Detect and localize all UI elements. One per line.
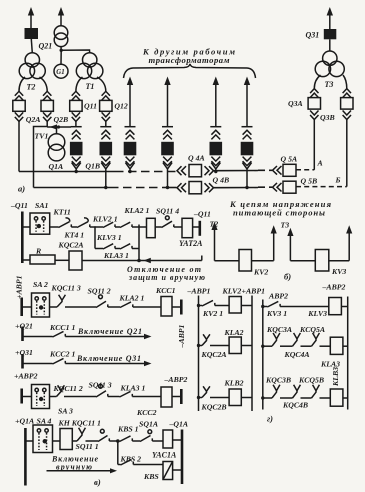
contact KQC5A — [312, 333, 320, 346]
svg-text:KQC3B: KQC3B — [265, 375, 291, 384]
svg-text:KV3: KV3 — [331, 267, 346, 276]
arrow right of KV2 — [252, 225, 277, 260]
svg-text:KLV2: KLV2 — [222, 287, 242, 296]
wire — [22, 396, 32, 398]
contact SQ11.2 — [96, 301, 108, 307]
breaker Q3B — [341, 98, 353, 110]
feeder unit F5: Y fork to bus — [211, 163, 220, 172]
svg-text:KT4 1: KT4 1 — [64, 231, 85, 240]
svg-text:+АВР1: +АВР1 — [15, 275, 24, 299]
drawout chevrons above Q2B — [43, 91, 51, 100]
contact KLV2.1 — [103, 222, 115, 227]
svg-text:б): б) — [284, 272, 291, 282]
svg-text:Q3A: Q3A — [288, 99, 303, 108]
feeder unit Q1B: stab contact bar — [100, 126, 111, 128]
wire — [132, 226, 139, 228]
contact KT1.1 (time relay) — [59, 222, 72, 228]
wire TV1 drop — [56, 127, 58, 134]
svg-text:Q 4B: Q 4B — [213, 176, 230, 185]
wire — [65, 306, 96, 308]
feeder unit Q1A: upper drawout chevrons — [72, 130, 81, 139]
svg-text:Включение Q21: Включение Q21 — [77, 327, 142, 336]
sectionalizer Q4B — [189, 182, 202, 194]
wire — [50, 306, 58, 308]
svg-text:–Q1A: –Q1A — [169, 419, 189, 428]
wire — [133, 306, 161, 308]
node F4 on bus2 — [166, 186, 169, 189]
wire — [132, 248, 139, 250]
Q5A left chevrons — [273, 166, 282, 175]
node — [197, 344, 200, 347]
svg-text:KLA3 1: KLA3 1 — [103, 251, 129, 260]
wire — [90, 226, 95, 228]
svg-text:+Q31: +Q31 — [15, 348, 33, 357]
control switch SA2 — [32, 293, 50, 317]
wire — [263, 397, 272, 399]
relay coil KLA2 — [147, 218, 156, 237]
bus A dashed — [115, 171, 177, 173]
trip coil YAT2A — [182, 218, 193, 237]
svg-text:SQ11 4: SQ11 4 — [156, 207, 179, 216]
wire — [263, 306, 268, 308]
svg-text:питающей стороны: питающей стороны — [233, 208, 325, 218]
wire — [109, 440, 119, 442]
svg-text:KCC1 1: KCC1 1 — [49, 323, 75, 332]
svg-text:KBS 1: KBS 1 — [117, 425, 139, 434]
contactor coil KCC1 — [161, 297, 172, 317]
contact KQC4B — [293, 385, 301, 398]
wire T3 left branch — [314, 75, 320, 89]
svg-text:г): г) — [267, 414, 273, 424]
wire — [108, 396, 120, 398]
contact SQ11.4 (position switch) — [162, 221, 174, 227]
relay KBS (latched) — [163, 462, 173, 480]
wire — [343, 397, 348, 399]
feeder unit F6: Y fork to bus — [242, 163, 251, 188]
bus A solid left — [19, 171, 115, 173]
g2 right rail — [347, 297, 349, 410]
svg-text:Q1B: Q1B — [85, 162, 100, 171]
wire — [115, 248, 120, 250]
contact KBS.2 — [121, 459, 134, 465]
wire — [132, 440, 140, 442]
svg-text:KCQ5A: KCQ5A — [299, 325, 325, 334]
feeder unit F4: lower drawout chevrons — [163, 157, 172, 166]
wire — [25, 440, 33, 442]
wire — [193, 226, 200, 228]
feeder unit Q1A: Y fork to bus — [72, 163, 81, 172]
contact KBS.1 — [120, 436, 133, 442]
svg-text:–Q11: –Q11 — [10, 201, 28, 210]
relay coil KLV3 — [329, 298, 342, 315]
wire — [22, 306, 32, 308]
svg-text:KT11: KT11 — [53, 208, 71, 217]
contact KLA3.1 — [120, 244, 132, 249]
node — [261, 396, 264, 399]
feeder arrow 4 — [244, 77, 250, 127]
wire right bar down to row2 — [138, 249, 140, 261]
svg-text:KCQ5B: KCQ5B — [298, 375, 324, 384]
wire row2 to right — [82, 260, 202, 262]
breaker Q1B (filled) — [100, 142, 113, 156]
annotation arrow manual closing — [47, 470, 111, 472]
svg-text:а): а) — [18, 184, 25, 194]
wire — [320, 397, 331, 399]
bus B dashed — [110, 187, 163, 189]
breaker F4 (filled) — [161, 142, 174, 156]
drawout chevrons below Q11 — [72, 112, 80, 121]
svg-text:в): в) — [94, 477, 101, 487]
resistor R — [30, 255, 55, 264]
feeder unit F5: stab contact bar — [210, 126, 221, 128]
right rail rows7-8 — [181, 430, 184, 485]
svg-text:Q11: Q11 — [84, 102, 97, 111]
svg-text:KLV3 1: KLV3 1 — [96, 233, 122, 242]
svg-text:T2: T2 — [210, 219, 219, 228]
arrowhead to Q21 closing — [144, 334, 152, 339]
svg-text:АВР2: АВР2 — [268, 292, 288, 301]
wire Q3B down line B — [346, 120, 348, 187]
arrow T3 voltage — [287, 228, 315, 261]
wire — [280, 397, 293, 399]
svg-text:KQC4A: KQC4A — [284, 350, 310, 359]
wire — [301, 345, 312, 347]
svg-text:Включение Q31: Включение Q31 — [76, 354, 141, 363]
svg-text:Q31: Q31 — [306, 31, 320, 40]
arrow to grid above Q31 — [327, 7, 333, 29]
wire — [241, 305, 252, 307]
wire — [199, 305, 203, 307]
contact KQC11.2 — [57, 385, 65, 396]
wire to arrow — [65, 336, 144, 338]
node — [197, 304, 200, 307]
control switch SA4 — [33, 425, 53, 453]
svg-text:+Q21: +Q21 — [15, 321, 33, 330]
drawout chevrons above Q11 — [72, 91, 80, 100]
wire KBS to rail — [173, 469, 182, 471]
breaker F5 (filled) — [210, 142, 223, 156]
wire — [173, 439, 182, 441]
svg-text:SA1: SA1 — [35, 201, 49, 210]
svg-text:KLB2: KLB2 — [224, 378, 244, 387]
svg-text:–Q11: –Q11 — [193, 209, 211, 218]
contact KT4.1 (time relay) — [77, 222, 90, 228]
feeder arrow 3 — [213, 77, 219, 127]
arrow to grid above GT transformer — [58, 7, 64, 26]
svg-text:KLA2 1: KLA2 1 — [119, 294, 145, 303]
node F6 on bus2 — [245, 186, 248, 189]
control switch SA1 — [30, 213, 50, 234]
node F5 on bus1 — [214, 170, 217, 173]
right rail -Q11 — [199, 221, 202, 236]
svg-text:KLB3: KLB3 — [331, 367, 340, 387]
wire Q31 to T3 — [329, 39, 331, 51]
sectionalizer Q4A left chevrons — [177, 166, 186, 175]
contact KQC2B — [202, 386, 210, 397]
svg-text:G1: G1 — [56, 69, 64, 76]
wire — [241, 397, 252, 399]
feeder arrow 2 — [164, 77, 170, 127]
svg-text:защит и вручную: защит и вручную — [128, 273, 205, 282]
contact KCC2.1 — [53, 358, 66, 364]
svg-text:KQC2A: KQC2A — [58, 241, 84, 250]
wire Q3A down line A — [313, 120, 315, 170]
contact KQC3A — [272, 333, 280, 346]
svg-text:KCC1: KCC1 — [155, 286, 176, 295]
transformer T1 (3 windings) — [76, 53, 103, 79]
node TV1 tap — [57, 125, 60, 128]
arrowhead on TV1 feed — [50, 124, 58, 129]
closing coil YAC1A — [163, 430, 173, 448]
wire — [301, 397, 312, 399]
right stub row3 — [180, 300, 183, 315]
svg-text:SA 2: SA 2 — [33, 280, 48, 289]
wire — [72, 440, 77, 442]
chevrons above Q3B — [343, 89, 351, 98]
svg-text:Б: Б — [335, 175, 341, 184]
drawout chevrons below Q2B — [43, 112, 51, 121]
contact KCC1.1 — [53, 331, 66, 337]
svg-text:KLA3 1: KLA3 1 — [120, 383, 146, 392]
feeder unit Q1B: Y fork to bus — [101, 163, 110, 188]
feeder unit F5: upper drawout chevrons — [211, 130, 220, 139]
sectionalizer Q4B left chevrons — [177, 183, 186, 192]
feeder unit Q1B: lower drawout chevrons — [101, 157, 110, 166]
wire — [210, 397, 229, 399]
wire Q2B to TV1 / Q1A feed — [47, 126, 71, 128]
chevrons below Q3B — [343, 111, 351, 120]
wire Q2B elbow to bus B riser — [34, 121, 48, 187]
node — [197, 396, 200, 399]
svg-text:Q 4A: Q 4A — [188, 154, 205, 163]
wire — [263, 345, 272, 347]
svg-text:KQC3A: KQC3A — [266, 325, 292, 334]
g2 left rail — [262, 300, 264, 410]
breaker Q21 (closed, filled) — [25, 28, 39, 39]
svg-text:KV2: KV2 — [253, 268, 268, 277]
wire — [152, 440, 163, 442]
feeder unit F4: stab contact bar — [162, 126, 173, 128]
wire to arrow — [65, 363, 144, 365]
contact KLA2.1 — [120, 302, 133, 308]
right stub row6 — [180, 389, 183, 404]
g1 right rail — [251, 296, 253, 412]
wire branch2 — [95, 248, 103, 250]
svg-text:Q12: Q12 — [114, 102, 128, 111]
contact KLV3.1 — [103, 244, 115, 249]
wire — [23, 363, 53, 365]
svg-text:R: R — [35, 247, 41, 256]
svg-text:KCC2 1: KCC2 1 — [49, 349, 75, 358]
wire — [55, 259, 69, 261]
wire — [155, 226, 161, 228]
svg-text:KLV3: KLV3 — [307, 309, 327, 318]
wire — [115, 226, 120, 228]
brace: to other working transformers — [124, 64, 256, 78]
wire — [108, 306, 120, 308]
bus A solid mid — [214, 170, 259, 172]
sectionalizer Q4A right chevrons — [205, 166, 214, 175]
contact KQC11.3 — [57, 295, 65, 307]
wire GT to node — [60, 47, 62, 51]
svg-text:KV2 1: KV2 1 — [202, 309, 223, 318]
contact KLA2.1 — [120, 222, 132, 227]
wire node to T1 — [61, 50, 89, 53]
svg-text:–АВР2: –АВР2 — [164, 375, 188, 384]
drawout chevrons above Q12 — [102, 91, 110, 100]
feeder unit F6: stab contact bar — [242, 126, 253, 128]
svg-text:KQC11 2: KQC11 2 — [53, 384, 83, 393]
wire — [215, 305, 229, 307]
left rail rows7-8 — [24, 428, 27, 486]
wire — [53, 440, 61, 442]
relay coil KLA2 — [229, 337, 241, 354]
bus B dashed right — [258, 186, 272, 188]
node — [261, 345, 264, 348]
svg-text:KQC11 3: KQC11 3 — [51, 284, 81, 293]
node junction GT/G1/T1 — [60, 49, 63, 52]
node Q1B on bus2 — [104, 186, 107, 189]
arrow to grid above Q21 — [28, 7, 34, 28]
left stub row4 — [21, 327, 24, 342]
drawout chevrons above Q2A — [15, 91, 23, 100]
wire — [23, 336, 53, 338]
relay coil KLA3 — [330, 337, 343, 354]
contact SQ11.1 — [98, 436, 109, 442]
svg-text:–АВР1: –АВР1 — [187, 287, 211, 296]
wire T1 left branch — [76, 77, 83, 91]
contact KV3.1 — [267, 301, 280, 307]
svg-text:KV3 1: KV3 1 — [266, 309, 287, 318]
wire to coil — [139, 226, 147, 228]
control switch SA3 — [32, 385, 50, 409]
wire — [210, 345, 229, 347]
breaker Q12 — [100, 100, 112, 111]
feeder unit F3: upper drawout chevrons — [126, 130, 135, 139]
svg-text:T3: T3 — [281, 221, 290, 230]
svg-text:KH KQC11 1: KH KQC11 1 — [58, 419, 102, 428]
relay coil KLB2 — [229, 389, 241, 406]
breaker Q1A (filled) — [70, 142, 83, 156]
svg-text:–АВР1: –АВР1 — [177, 324, 186, 348]
feeder unit F4: Y fork to bus — [163, 163, 172, 188]
arrow T2 voltage — [211, 222, 239, 261]
arrow right of KV3 — [329, 225, 353, 260]
transformer T3 (3 windings) — [315, 51, 344, 77]
feeder unit F3: lower drawout chevrons — [126, 157, 135, 166]
unit transformer GT (2 windings) — [54, 26, 68, 47]
wire T3 right branch — [343, 75, 347, 89]
bus B solid — [163, 187, 177, 189]
voltage transformer TV1 — [48, 134, 65, 161]
svg-text:T3: T3 — [325, 80, 334, 89]
node Q1A on bus1 — [75, 170, 78, 173]
contact KLA3.1 — [120, 391, 133, 397]
node KBS branch — [116, 439, 120, 443]
svg-text:KQC2A: KQC2A — [201, 350, 227, 359]
svg-text:Q21: Q21 — [39, 42, 53, 51]
parallel group left bar — [94, 226, 96, 248]
breaker F3 (filled) — [124, 142, 137, 156]
reserve breaker Q5B — [283, 181, 296, 193]
contact SQ11.3 — [96, 391, 108, 397]
svg-text:Q1A: Q1A — [49, 162, 64, 171]
feeder unit F3: stab contact bar — [125, 126, 136, 128]
contact KQC4A — [293, 333, 301, 346]
generator G1 — [54, 64, 68, 78]
feeder arrow 1 — [127, 77, 133, 127]
left stub row6 — [20, 389, 23, 404]
svg-text:SQ11 1: SQ11 1 — [76, 442, 99, 451]
wire node to G1 — [60, 50, 62, 64]
wire — [199, 345, 203, 347]
end tick — [201, 256, 203, 261]
wire Q12 down — [105, 121, 107, 126]
svg-text:Q2A: Q2A — [26, 115, 41, 124]
contactor coil KCC2 — [161, 387, 172, 407]
relay KQC2A — [69, 251, 82, 270]
svg-text:T1: T1 — [86, 82, 95, 91]
reserve breaker Q5A — [283, 164, 296, 176]
svg-text:Q3B: Q3B — [320, 113, 335, 122]
wire — [64, 396, 96, 398]
wire rail to R — [22, 259, 30, 261]
svg-text:KLA2: KLA2 — [224, 328, 244, 337]
svg-text:трансформаторам: трансформаторам — [149, 55, 230, 65]
svg-text:KQC2B: KQC2B — [201, 403, 227, 412]
dashed link Q5B to line B — [296, 186, 347, 188]
node row1 drop — [137, 259, 141, 263]
svg-text:KBS 2: KBS 2 — [120, 455, 142, 464]
transformer T2 (3 windings) — [19, 53, 45, 79]
wire T2 right branch — [40, 77, 48, 91]
relay coil KLB3 — [330, 389, 343, 406]
feeder unit F5: lower drawout chevrons — [211, 157, 220, 166]
drawout chevrons below Q12 — [102, 112, 110, 121]
svg-text:Q 5A: Q 5A — [281, 155, 298, 164]
contact SQ1A — [140, 436, 152, 442]
sectionalizer Q4B right chevrons — [205, 183, 214, 192]
wire — [172, 396, 181, 398]
wire — [174, 226, 182, 228]
wire — [199, 397, 203, 399]
svg-text:Q 5B: Q 5B — [301, 177, 318, 186]
sectionalizer Q4A — [189, 165, 202, 177]
breaker Q11 — [70, 100, 82, 111]
wire — [343, 345, 348, 347]
wire — [118, 464, 121, 466]
node F3 on bus1 — [128, 170, 131, 173]
Q5B left chevrons — [273, 183, 282, 192]
wire KBS branch drop — [117, 441, 119, 465]
feeder unit Q1B: upper drawout chevrons — [101, 130, 110, 139]
svg-text:+Q1A: +Q1A — [15, 417, 34, 426]
svg-text:А: А — [317, 159, 323, 168]
svg-text:KLV2 1: KLV2 1 — [92, 214, 118, 223]
svg-text:Q2B: Q2B — [54, 115, 69, 124]
wire T2 left branch — [19, 77, 25, 91]
svg-text:+АВР1: +АВР1 — [242, 287, 266, 296]
bus B solid mid — [214, 187, 259, 189]
svg-text:KBS: KBS — [143, 472, 159, 481]
wire — [320, 345, 331, 347]
wire — [71, 226, 77, 228]
wire — [280, 345, 293, 347]
svg-text:SA 3: SA 3 — [58, 407, 73, 416]
feeder unit Q1A: lower drawout chevrons — [72, 157, 81, 166]
dashed link Q5A to line A — [296, 169, 314, 171]
svg-text:YAC1A: YAC1A — [152, 450, 177, 459]
